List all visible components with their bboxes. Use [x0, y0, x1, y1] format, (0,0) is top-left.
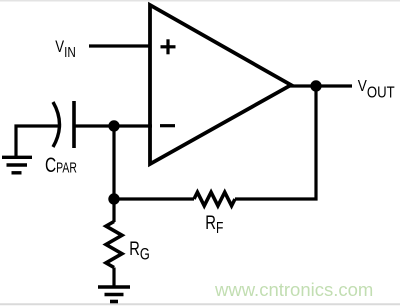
- ground G1: [2, 157, 32, 173]
- node C (output node): [310, 80, 321, 91]
- capacitor CPAR straight plate: [72, 101, 76, 148]
- wire RG to ground: [112, 268, 115, 287]
- wire CPAR to - input node: [74, 124, 152, 127]
- op-amp - pin symbol: [160, 124, 175, 127]
- wire RF to output branch: [235, 86, 316, 199]
- svg-text:www.cntronics.com: www.cntronics.com: [214, 279, 373, 300]
- wire node B to RF: [114, 197, 194, 200]
- op-amp U1: [150, 5, 291, 164]
- top edge artifact line: [0, 0, 400, 2]
- bottom edge artifact line: [0, 303, 400, 305]
- wire VIN to + input: [89, 44, 150, 47]
- capacitor CPAR curved plate: [53, 102, 60, 147]
- node B (feedback node): [108, 193, 119, 204]
- wire node B down to RG: [112, 199, 115, 222]
- node A (inverting input node): [108, 120, 119, 131]
- op-amp + pin symbol: [161, 39, 176, 54]
- wire node A down to node B: [112, 126, 115, 199]
- resistor RG: [106, 222, 122, 268]
- ground G2: [98, 287, 130, 302]
- wire op-amp output to VOUT: [289, 84, 352, 87]
- resistor RF: [194, 192, 235, 206]
- wire ground to CPAR: [16, 126, 58, 157]
